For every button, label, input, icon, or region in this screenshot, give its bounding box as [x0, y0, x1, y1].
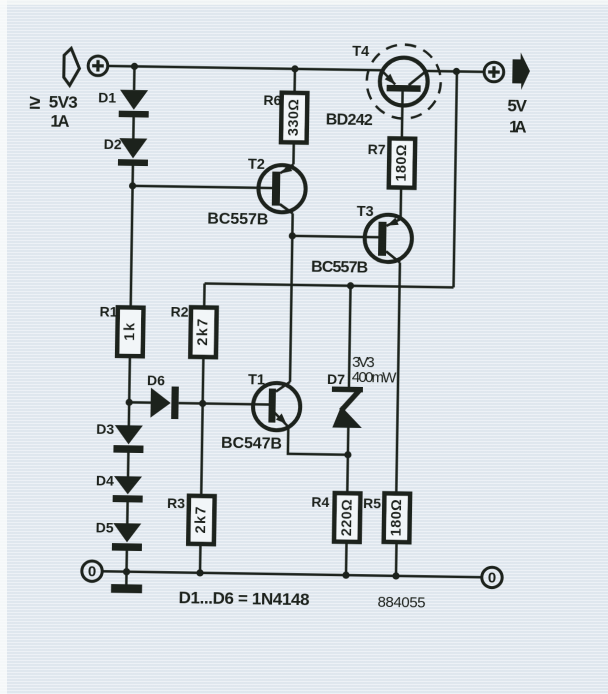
transistor T2 emitter with arrow [280, 164, 293, 173]
resistor R1 [117, 307, 143, 356]
svg-text:D2: D2 [104, 136, 122, 152]
wire D7 bottom lead [347, 427, 350, 455]
node: D6 / R2 / R3 / T1 base junction [199, 400, 206, 407]
wire top rail left segment [108, 66, 382, 70]
transistor T1 body circle [253, 383, 301, 431]
node: chain / T2 base junction [129, 182, 136, 189]
wire R7 bottom to T3 emitter [399, 188, 402, 219]
svg-text:D1...D6 = 1N4148: D1...D6 = 1N4148 [178, 588, 309, 609]
wire right feedback branch vertical [454, 71, 457, 287]
wire top rail right segment [426, 70, 484, 73]
node: collector / T3 base junction [289, 232, 296, 239]
svg-text:2k7: 2k7 [193, 506, 209, 533]
wire diode chain top lead [133, 66, 136, 90]
svg-text:180Ω: 180Ω [389, 499, 406, 537]
svg-text:R3: R3 [167, 495, 185, 511]
svg-text:180Ω: 180Ω [394, 144, 411, 182]
output terminal + circle [484, 62, 504, 82]
svg-text:330Ω: 330Ω [286, 99, 303, 137]
wire D5 to rail [125, 551, 128, 572]
svg-text:T4: T4 [352, 44, 369, 60]
svg-text:R2: R2 [170, 304, 188, 320]
svg-text:R7: R7 [368, 141, 386, 157]
node: chain / D6 junction [126, 399, 133, 406]
transistor T1 collector [276, 382, 290, 392]
svg-text:BC547B: BC547B [221, 435, 282, 453]
transistor T4 collector [409, 71, 427, 86]
wire T1 base [203, 403, 269, 404]
node: rail / R6 junction [291, 65, 298, 72]
svg-text:D5: D5 [96, 519, 114, 535]
transistor T2 body circle [258, 165, 306, 213]
svg-text:1A: 1A [50, 112, 69, 130]
transistor T2 base bar [272, 172, 281, 206]
svg-text:T1: T1 [248, 372, 265, 388]
svg-text:D4: D4 [96, 472, 114, 488]
wire R6 bottom to T2 emitter [292, 142, 295, 164]
svg-text:≥: ≥ [29, 92, 40, 114]
wire R6 top lead [293, 69, 296, 93]
transistor T2 collector [280, 204, 293, 213]
resistor R6 [281, 93, 307, 143]
wire D2 to R1 [131, 166, 133, 308]
node: rail / R4 junction [342, 571, 349, 578]
resistor R4 [334, 493, 360, 542]
svg-text:0: 0 [488, 569, 497, 586]
resistor R2 [190, 307, 216, 357]
svg-text:R6: R6 [263, 92, 281, 108]
svg-text:2k7: 2k7 [195, 319, 211, 346]
svg-text:1A: 1A [509, 117, 527, 136]
wire R4 bottom lead [345, 542, 348, 575]
svg-text:D6: D6 [147, 372, 165, 388]
svg-text:220Ω: 220Ω [339, 499, 356, 537]
wire feedback horizontal to R2 [205, 283, 454, 287]
svg-text:5V3: 5V3 [49, 92, 78, 111]
svg-text:884055: 884055 [377, 594, 425, 612]
svg-text:0: 0 [88, 563, 97, 580]
wire R2 bottom to node [201, 357, 204, 403]
transistor T3 collector [386, 251, 400, 262]
diode D5 [113, 523, 141, 542]
ground terminal 0 left [82, 561, 103, 582]
input terminal + circle [88, 56, 108, 76]
transistor T1 emitter with arrow [274, 413, 288, 427]
output arrow symbol [512, 52, 530, 90]
wire T1 emitter down and right [288, 427, 348, 455]
transistor T4 base bar [387, 85, 421, 92]
wire R4 top lead [346, 455, 349, 493]
node: feedback / D7 junction [347, 282, 354, 289]
transistor T4 dashed heatsink circle [366, 44, 441, 119]
diode D4 [114, 476, 142, 494]
wire R1 to D6 node [128, 356, 131, 402]
diode D3 [115, 425, 143, 444]
wire R3 bottom lead [199, 544, 202, 573]
svg-text:T2: T2 [248, 157, 265, 173]
svg-text:D1: D1 [98, 89, 116, 105]
wire R2 top lead [203, 283, 206, 307]
svg-text:1k: 1k [122, 322, 138, 341]
svg-text:D3: D3 [96, 421, 114, 437]
node: T1 emitter / D7 / R4 junction [344, 451, 351, 458]
node: input rail / diode chain junction [131, 63, 138, 70]
transistor T1 base bar [268, 389, 276, 423]
transistor T3 body circle [364, 214, 412, 262]
svg-text:400mW: 400mW [352, 369, 398, 387]
svg-text:R1: R1 [99, 303, 117, 319]
wire node to R3 [201, 403, 202, 495]
resistor R7 [389, 138, 415, 187]
node: rail / output branch junction [453, 68, 460, 75]
wire T3 collector down to R5 [396, 263, 400, 495]
svg-text:R5: R5 [363, 495, 381, 511]
ground terminal 0 right [482, 567, 503, 588]
transistor T4 body circle [379, 57, 428, 106]
wire D7 top lead [349, 286, 351, 387]
svg-text:D7: D7 [327, 371, 345, 387]
ground bar symbol [125, 572, 128, 585]
wire R5 bottom lead [395, 542, 398, 576]
resistor R3 [188, 496, 214, 544]
transistor T4 emitter with arrow [381, 70, 395, 84]
wire D4-D5 [126, 502, 129, 523]
diode D2 [119, 138, 147, 158]
node: rail / R5 junction [392, 572, 399, 579]
svg-text:BD242: BD242 [326, 111, 373, 129]
svg-text:R4: R4 [311, 494, 329, 510]
svg-text:BC557B: BC557B [207, 211, 268, 229]
wire D1-D2 [132, 117, 135, 138]
transistor T3 emitter with arrow [386, 219, 400, 226]
diode D1 [120, 90, 148, 110]
wire T2/T1 collector vertical [290, 213, 293, 381]
zener diode D7 [332, 387, 363, 393]
wire T3 base [292, 236, 378, 237]
node: rail / R3 junction [196, 569, 203, 576]
node: rail / chain junction [123, 568, 130, 575]
wire T2 base from diode chain [133, 186, 272, 188]
wire bottom ground rail [102, 571, 482, 577]
wire D3-D4 [127, 453, 130, 476]
svg-text:T3: T3 [357, 204, 374, 220]
resistor R5 [384, 493, 410, 542]
wire chain to D3 [128, 402, 131, 425]
svg-text:BC557B: BC557B [311, 259, 368, 277]
svg-text:5V: 5V [507, 96, 527, 115]
transistor T3 base bar [378, 222, 387, 256]
wire T4 base lead to R7 [401, 92, 404, 140]
input arrow symbol [64, 48, 80, 85]
diode D6 [129, 401, 150, 404]
